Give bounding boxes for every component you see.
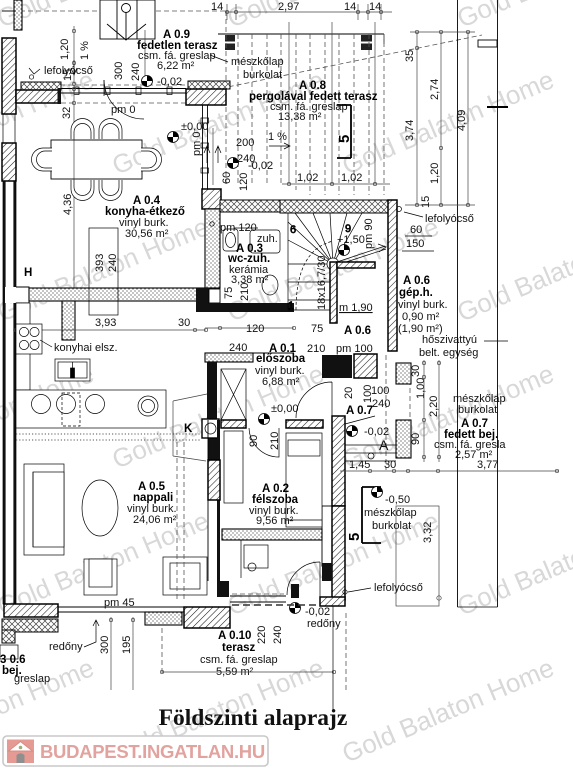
svg-text:-0,02: -0,02 <box>157 76 182 88</box>
right plot line 2 <box>497 0 499 607</box>
svg-text:220: 220 <box>256 626 268 644</box>
svg-text:1 %: 1 % <box>268 131 287 143</box>
sofa <box>24 464 64 555</box>
svg-text:A 0.10: A 0.10 <box>218 630 251 642</box>
K column <box>184 419 219 438</box>
kitchen partition dotted band <box>29 288 206 301</box>
felszoba furniture bed <box>286 433 322 527</box>
stairs <box>288 213 362 312</box>
felszoba west wall lower <box>208 420 229 597</box>
outdoor steps top <box>100 0 155 40</box>
svg-text:210: 210 <box>239 283 251 301</box>
dim 1,20 / 1% top-left <box>59 26 91 83</box>
svg-text:35: 35 <box>404 50 416 62</box>
desk chair <box>241 540 268 578</box>
eloszoba north dotted wall <box>205 353 294 362</box>
wc room <box>210 222 280 301</box>
svg-text:6,88 m²: 6,88 m² <box>262 376 300 388</box>
felszoba dotted band <box>222 529 322 540</box>
svg-text:5: 5 <box>336 135 353 143</box>
wall eloszoba west <box>207 362 217 420</box>
svg-text:2,20: 2,20 <box>428 396 440 417</box>
pergola rafters dashed <box>238 34 384 195</box>
svg-text:belt. egység: belt. egység <box>419 347 478 359</box>
svg-text:210: 210 <box>269 432 281 450</box>
svg-text:6,22 m²: 6,22 m² <box>157 60 195 72</box>
svg-text:75: 75 <box>311 323 323 335</box>
hoszivattyu <box>368 334 508 470</box>
svg-text:393: 393 <box>94 254 106 272</box>
svg-text:m 1,90: m 1,90 <box>339 302 373 314</box>
pergola post right <box>361 35 372 50</box>
svg-text:14: 14 <box>369 1 381 13</box>
north wall east segment <box>186 81 230 105</box>
armchair <box>84 559 117 595</box>
main entry door <box>287 562 320 598</box>
konyhai elsz label <box>40 340 118 354</box>
svg-text:mészkőlap: mészkőlap <box>364 507 417 519</box>
wall etkezo/wc vertical <box>202 189 221 312</box>
svg-text:20: 20 <box>343 387 355 399</box>
svg-text:2,57 m²: 2,57 m² <box>455 449 493 461</box>
east wall geph <box>388 200 397 351</box>
closet X <box>221 369 246 420</box>
svg-text:120: 120 <box>238 173 250 191</box>
svg-text:240: 240 <box>272 626 284 644</box>
svg-text:mészkőlap: mészkőlap <box>231 56 284 68</box>
label A0.9 fedetlen terasz <box>137 29 218 72</box>
stove <box>16 303 42 390</box>
svg-text:2,97: 2,97 <box>278 1 299 13</box>
left party wall upper <box>2 0 22 181</box>
svg-text:pm 0: pm 0 <box>111 104 135 116</box>
svg-text:1,20: 1,20 <box>59 39 71 60</box>
nappali south wall <box>2 604 184 643</box>
svg-text:3,93: 3,93 <box>95 317 116 329</box>
eloszoba entry door arc <box>296 382 332 418</box>
svg-text:0,90 m²: 0,90 m² <box>402 311 440 323</box>
svg-text:60: 60 <box>221 172 233 184</box>
svg-text:240: 240 <box>372 398 390 410</box>
svg-text:A 0.7: A 0.7 <box>346 405 373 417</box>
svg-text:csm. fá. greslap: csm. fá. greslap <box>200 654 278 666</box>
svg-text:1,02: 1,02 <box>341 172 362 184</box>
svg-text:pm 90: pm 90 <box>363 218 375 249</box>
svg-text:redőny: redőny <box>307 618 341 630</box>
svg-text:pm 100: pm 100 <box>336 343 373 355</box>
svg-text:H: H <box>24 267 32 279</box>
svg-text:100: 100 <box>371 385 389 397</box>
gallery dashed lines <box>177 442 184 600</box>
label A0.4 konyha-etkezo <box>105 195 185 240</box>
svg-text:redőny: redőny <box>49 641 83 653</box>
level -0,50 <box>372 487 411 507</box>
svg-text:200: 200 <box>236 137 254 149</box>
svg-text:burkolat: burkolat <box>372 520 411 532</box>
svg-text:1,02: 1,02 <box>297 172 318 184</box>
north wall west segment <box>16 82 61 104</box>
svg-text:240: 240 <box>229 342 247 354</box>
desk nappali <box>163 557 207 595</box>
redony left <box>49 620 99 653</box>
right dim col1 <box>404 30 475 208</box>
meszkolap burkolat bottom <box>364 507 417 532</box>
tick on plot line <box>487 106 508 108</box>
A0.7 labels <box>343 385 390 453</box>
svg-text:9,56 m²: 9,56 m² <box>256 515 294 527</box>
svg-text:90: 90 <box>410 433 422 445</box>
eloszoba level <box>259 403 299 425</box>
wall felszoba/entry vertical <box>320 416 345 606</box>
svg-text:120: 120 <box>246 323 264 335</box>
terasz A010 labels <box>200 626 284 678</box>
svg-text:1,20: 1,20 <box>429 163 441 184</box>
svg-text:-0,02: -0,02 <box>248 160 273 172</box>
A0.7 fedett bej labels <box>434 393 506 461</box>
stairblock north wall <box>280 200 396 213</box>
halftone -002 top <box>142 76 183 89</box>
svg-text:240: 240 <box>130 63 142 81</box>
plot line closure <box>458 606 498 608</box>
north window band <box>61 87 186 95</box>
kitchen island <box>89 228 119 315</box>
svg-text:300: 300 <box>113 62 125 80</box>
svg-text:13,38 m²: 13,38 m² <box>278 111 322 123</box>
dim 200/240 kitchen right <box>213 128 290 191</box>
svg-text:burkolat: burkolat <box>458 404 497 416</box>
dim 30/393/30 <box>13 315 208 332</box>
svg-text:210: 210 <box>307 343 325 355</box>
svg-text:300: 300 <box>99 636 111 654</box>
svg-text:30: 30 <box>384 459 396 471</box>
svg-text:4,36: 4,36 <box>62 194 74 215</box>
label A0.8 pergola terasz <box>249 80 378 123</box>
section 5 bottom <box>346 487 381 543</box>
svg-text:30: 30 <box>410 365 422 377</box>
svg-text:15: 15 <box>62 69 74 81</box>
section 5 top <box>336 105 353 158</box>
svg-text:előszoba: előszoba <box>256 353 306 365</box>
pergola dim verticals <box>289 22 375 184</box>
svg-text:burkolat: burkolat <box>243 69 282 81</box>
kitchen counter row bottom <box>16 390 166 428</box>
svg-text:K: K <box>184 423 193 435</box>
dim 120 240 wc <box>205 323 296 354</box>
dim 1,45 30 3,77 <box>340 459 559 473</box>
svg-text:1,45: 1,45 <box>349 459 370 471</box>
entry steps <box>345 445 396 461</box>
right plot line 1 <box>457 0 459 607</box>
svg-text:15: 15 <box>420 196 432 208</box>
newel wall <box>330 262 375 323</box>
pier1 <box>396 363 411 384</box>
svg-text:240: 240 <box>107 254 119 272</box>
pier2 <box>396 420 411 458</box>
svg-text:hőszivattyú: hőszivattyú <box>422 334 477 346</box>
svg-text:lefolyócső: lefolyócső <box>425 213 474 225</box>
svg-text:gép.h.: gép.h. <box>399 287 433 299</box>
wall between nappali and terasz <box>184 607 230 628</box>
svg-text:75: 75 <box>223 287 235 299</box>
svg-text:A 0.6: A 0.6 <box>403 275 430 287</box>
svg-text:+1,50: +1,50 <box>337 234 365 246</box>
kitchen/nappali dotted boundary <box>16 433 207 435</box>
svg-text:±0,00: ±0,00 <box>271 403 298 415</box>
3,32 path dims <box>396 506 441 606</box>
coffee table <box>82 480 118 536</box>
svg-text:6: 6 <box>290 224 296 236</box>
felszoba wardrobe <box>224 431 243 503</box>
svg-text:terasz: terasz <box>222 642 255 654</box>
svg-text:2,74: 2,74 <box>429 79 441 100</box>
redony right <box>232 594 341 630</box>
geph labels <box>307 302 373 355</box>
svg-text:-0,50: -0,50 <box>385 494 410 506</box>
geph south wall <box>322 354 377 378</box>
lefolyocso top-left <box>29 65 93 79</box>
handrail <box>337 244 386 265</box>
pergola post left <box>225 35 235 50</box>
dim 300/240 door etkezo top <box>113 30 145 85</box>
top dimension line <box>211 1 392 20</box>
svg-text:±0,00: ±0,00 <box>181 121 208 133</box>
svg-text:30,56 m²: 30,56 m² <box>125 228 169 240</box>
dim 32 vert dining <box>62 110 74 330</box>
svg-text:5: 5 <box>346 533 363 541</box>
lefolyocso right <box>397 207 474 252</box>
wc south wall <box>196 288 294 312</box>
svg-text:konyhai elsz.: konyhai elsz. <box>54 342 118 354</box>
svg-text:4,09: 4,09 <box>456 110 468 131</box>
level pm0 etkezo <box>168 121 211 163</box>
label A0.6 geph right <box>398 275 448 335</box>
dining table <box>51 140 142 179</box>
svg-text:A 0.6: A 0.6 <box>344 325 371 337</box>
svg-text:-0,02: -0,02 <box>305 606 330 618</box>
left party wall mid (double line) <box>3 181 16 604</box>
svg-text:150: 150 <box>406 238 424 250</box>
H door niche <box>5 267 32 303</box>
svg-text:greslap: greslap <box>14 673 50 685</box>
svg-text:60: 60 <box>410 224 422 236</box>
svg-text:BUDAPEST.INGATLAN.HU: BUDAPEST.INGATLAN.HU <box>40 741 265 762</box>
svg-text:3,74: 3,74 <box>404 120 416 141</box>
neighbor bits bottom left <box>0 645 50 685</box>
svg-text:Földszinti alaprajz: Földszinti alaprajz <box>159 705 348 731</box>
svg-text:1,00: 1,00 <box>415 378 427 399</box>
felszoba south window <box>230 596 286 602</box>
svg-text:195: 195 <box>121 636 133 654</box>
svg-text:1: 1 <box>288 300 294 312</box>
lefolyocso bottom <box>343 582 423 594</box>
pergola slope diagonal <box>213 35 482 90</box>
felszoba north wall pieces <box>221 420 323 428</box>
terrace A09 boundary dashed <box>20 11 226 184</box>
svg-text:18x16,7/30: 18x16,7/30 <box>316 256 328 310</box>
eloszoba label <box>255 343 306 388</box>
nappali labels <box>127 481 177 526</box>
svg-text:lefolyócső: lefolyócső <box>374 582 423 594</box>
felszoba door arc <box>248 428 281 457</box>
wc north wall <box>220 200 306 212</box>
svg-text:14: 14 <box>344 1 356 13</box>
terasz dims left <box>99 617 135 690</box>
svg-text:3,32: 3,32 <box>422 522 434 543</box>
kitchen sink unit <box>55 359 90 381</box>
terasz outline dashes <box>162 613 346 692</box>
label meszkolap top <box>210 55 284 81</box>
svg-text:1 %: 1 % <box>79 41 91 60</box>
svg-text:vinyl burk.: vinyl burk. <box>398 299 448 311</box>
dim 1,02 1,02 <box>282 172 390 186</box>
pergola beam <box>218 34 497 47</box>
logo <box>3 736 268 766</box>
stair labels <box>316 218 375 310</box>
svg-text:pm 0: pm 0 <box>191 132 203 156</box>
dim 15/32 left <box>61 69 76 119</box>
dining chairs <box>32 119 162 201</box>
east window etkezo vertical <box>201 105 209 189</box>
svg-text:24,06 m²: 24,06 m² <box>133 514 177 526</box>
svg-text:30: 30 <box>178 317 190 329</box>
etkezo door arc top <box>104 80 144 119</box>
felszoba labels <box>249 483 299 527</box>
svg-text:90: 90 <box>248 435 260 447</box>
svg-text:32: 32 <box>61 107 73 119</box>
